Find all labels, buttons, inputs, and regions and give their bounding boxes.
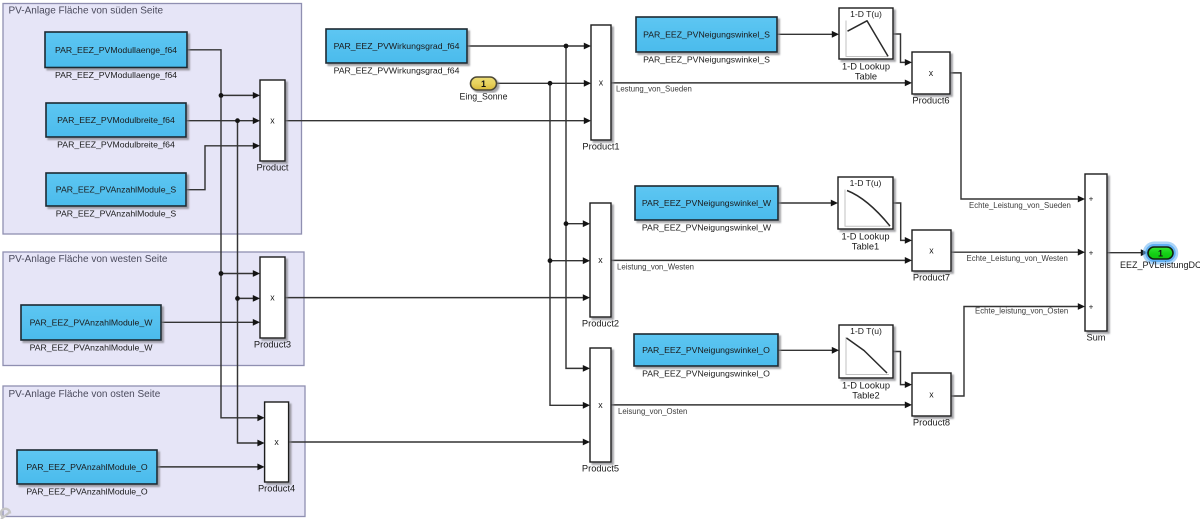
svg-text:x: x [274, 437, 279, 447]
product block Product5 [582, 348, 619, 474]
svg-text:Product7: Product7 [913, 273, 950, 283]
svg-text:x: x [598, 400, 603, 410]
wire: Product2 output (Leistung_von_Westen) to Product7 in2 [611, 257, 912, 264]
svg-text:1-D T(u): 1-D T(u) [850, 178, 882, 188]
svg-text:1-D T(u): 1-D T(u) [850, 9, 882, 19]
svg-text:1-D Lookup: 1-D Lookup [842, 381, 890, 391]
svg-text:PV-Anlage Fläche von westen Se: PV-Anlage Fläche von westen Seite [9, 254, 168, 265]
svg-text:PAR_EEZ_PVModullaenge_f64: PAR_EEZ_PVModullaenge_f64 [55, 70, 177, 80]
junction: Modulbreite branch at Product in2 [235, 118, 240, 123]
constant block PAR_EEZ_PVAnzahlModule_W [21, 305, 161, 353]
constant block PAR_EEZ_PVAnzahlModule_S [46, 173, 186, 219]
svg-text:PAR_EEZ_PVNeigungswinkel_O: PAR_EEZ_PVNeigungswinkel_O [642, 345, 770, 355]
product block Product3 [254, 257, 291, 350]
svg-text:1-D T(u): 1-D T(u) [850, 326, 882, 336]
svg-text:Table1: Table1 [852, 242, 879, 252]
svg-text:PAR_EEZ_PVAnzahlModule_S: PAR_EEZ_PVAnzahlModule_S [56, 185, 177, 195]
svg-text:Leisung_von_Osten: Leisung_von_Osten [618, 407, 687, 416]
svg-text:x: x [929, 68, 934, 78]
svg-text:x: x [929, 390, 934, 400]
wire: Product4 output to Product5 in3 [289, 439, 590, 446]
constant block PAR_EEZ_PVNeigungswinkel_O [634, 334, 778, 379]
input port Eing_Sonne [460, 77, 508, 102]
svg-text:PAR_EEZ_PVModulbreite_f64: PAR_EEZ_PVModulbreite_f64 [57, 140, 175, 150]
product block Product4 [258, 402, 295, 494]
svg-text:PAR_EEZ_PVNeigungswinkel_W: PAR_EEZ_PVNeigungswinkel_W [642, 223, 772, 233]
lookup table 1-D Lookup Table1 (West) [838, 177, 893, 252]
svg-text:Lestung_von_Sueden: Lestung_von_Sueden [616, 85, 692, 94]
svg-text:Table: Table [855, 72, 877, 82]
svg-text:PAR_EEZ_PVNeigungswinkel_S: PAR_EEZ_PVNeigungswinkel_S [643, 30, 770, 40]
wire: Product1 output (Lestung_von_Sueden) to Product6 in2 [611, 80, 912, 87]
svg-text:x: x [598, 255, 603, 265]
svg-text:Product8: Product8 [913, 418, 950, 428]
svg-text:Echte_leistung_von_Osten: Echte_leistung_von_Osten [975, 307, 1068, 316]
constant block PAR_EEZ_PVWirkungsgrad_f64 [326, 29, 467, 76]
svg-text:PAR_EEZ_PVNeigungswinkel_O: PAR_EEZ_PVNeigungswinkel_O [642, 369, 770, 379]
wire: Product7 output (Echte_Leistung_von_Westen) to Sum in2 [951, 249, 1085, 256]
wire: PAR_EEZ_PVAnzahlModule_O to Product4 in3 [157, 464, 265, 471]
wire: 1-D Lookup Table1 output to Product7 in1 [893, 203, 912, 244]
wire: 1-D Lookup Table output to Product6 in1 [893, 34, 912, 66]
constant block PAR_EEZ_PVModullaenge_f64 [45, 32, 187, 80]
svg-text:x: x [270, 116, 275, 126]
wire: Product6 output (Echte_Leistung_von_Sueden) to Sum in1 [950, 73, 1085, 203]
svg-text:PAR_EEZ_PVNeigungswinkel_S: PAR_EEZ_PVNeigungswinkel_S [643, 55, 770, 65]
svg-text:Echte_Leistung_von_Sueden: Echte_Leistung_von_Sueden [969, 201, 1071, 210]
junction: Modullaenge branch to Product [219, 93, 224, 98]
svg-text:PAR_EEZ_PVAnzahlModule_O: PAR_EEZ_PVAnzahlModule_O [26, 487, 148, 497]
lookup table 1-D Lookup Table (Sued) [839, 8, 893, 82]
junction: Wirkungsgrad branch down [564, 44, 569, 49]
constant block PAR_EEZ_PVNeigungswinkel_W [635, 186, 778, 233]
svg-text:Eing_Sonne: Eing_Sonne [460, 92, 508, 102]
product block Product [256, 80, 288, 173]
canvas corner mark [1, 509, 10, 519]
svg-text:PAR_EEZ_PVWirkungsgrad_f64: PAR_EEZ_PVWirkungsgrad_f64 [334, 41, 460, 51]
junction: Eing_Sonne branch down [548, 81, 553, 86]
sum block Sum [1085, 174, 1107, 343]
constant block PAR_EEZ_PVNeigungswinkel_S [636, 17, 777, 65]
svg-text:PAR_EEZ_PVAnzahlModule_W: PAR_EEZ_PVAnzahlModule_W [30, 343, 154, 353]
svg-text:x: x [599, 78, 604, 88]
svg-text:1: 1 [481, 79, 486, 89]
svg-text:Product4: Product4 [258, 484, 295, 494]
junction: Modullaenge branch to Product3 [219, 271, 224, 276]
svg-text:PV-Anlage Fläche von süden Sei: PV-Anlage Fläche von süden Seite [9, 6, 164, 17]
wire: PAR_EEZ_PVAnzahlModule_W to Product3 in3 [161, 319, 260, 326]
lookup table 1-D Lookup Table2 (Ost) [839, 325, 893, 401]
svg-text:1-D Lookup: 1-D Lookup [842, 62, 890, 72]
product block Product6 [912, 52, 950, 106]
svg-text:+: + [1089, 249, 1094, 258]
subsystem area: PV-Anlage Flaeche von sueden Seite [3, 4, 302, 235]
svg-text:Product5: Product5 [582, 464, 619, 474]
svg-text:PAR_EEZ_PVModulbreite_f64: PAR_EEZ_PVModulbreite_f64 [57, 115, 175, 125]
wire: PAR_EEZ_PVNeigungswinkel_S to 1-D Lookup Table [777, 31, 839, 38]
svg-text:+: + [1089, 194, 1094, 203]
svg-text:EEZ_PVLeistungDC: EEZ_PVLeistungDC [1120, 260, 1200, 270]
svg-text:Leistung_von_Westen: Leistung_von_Westen [617, 263, 694, 272]
wire: PAR_EEZ_PVNeigungswinkel_W to 1-D Lookup Table1 [778, 200, 838, 207]
constant block PAR_EEZ_PVModulbreite_f64 [46, 103, 186, 150]
svg-text:Product3: Product3 [254, 340, 291, 350]
wire: Product8 output (Echte_leistung_von_Osten) to Sum in3 [951, 303, 1085, 396]
wire: PAR_EEZ_PVNeigungswinkel_O to 1-D Lookup Table2 [778, 347, 839, 354]
subsystem area: PV-Anlage Flaeche von osten Seite [3, 386, 305, 517]
svg-text:PAR_EEZ_PVAnzahlModule_S: PAR_EEZ_PVAnzahlModule_S [56, 209, 177, 219]
wire: Product5 output (Leisung_von_Osten) to Product8 in2 [611, 402, 912, 409]
wire: PAR_EEZ_PVAnzahlModule_S to Product in3 [187, 142, 261, 189]
wire: Sum output to EEZ_PVLeistungDC port [1107, 249, 1148, 256]
svg-text:Echte_Leistung_von_Westen: Echte_Leistung_von_Westen [967, 254, 1068, 263]
output port EEZ_PVLeistungDC (selected) [1120, 244, 1200, 270]
product block Product2 [582, 203, 619, 329]
wire: Product output to Product1 in3 [285, 117, 591, 124]
constant block PAR_EEZ_PVAnzahlModule_O [17, 450, 157, 497]
svg-text:+: + [1089, 302, 1094, 311]
wire: Eing_Sonne to Product1/Product2/Product5 in2 [497, 80, 592, 409]
junction: Wirkungsgrad branch to Product2 in1 [564, 221, 569, 226]
junction: Modulbreite branch to Product3 in2 [235, 296, 240, 301]
svg-text:Product2: Product2 [582, 319, 619, 329]
wire: 1-D Lookup Table2 output to Product8 in1 [893, 352, 912, 389]
svg-text:PV-Anlage Fläche von osten Sei: PV-Anlage Fläche von osten Seite [9, 389, 161, 400]
svg-text:PAR_EEZ_PVWirkungsgrad_f64: PAR_EEZ_PVWirkungsgrad_f64 [334, 66, 460, 76]
svg-text:Sum: Sum [1086, 333, 1105, 343]
junction: Eing_Sonne branch to Product2 in2 [548, 258, 553, 263]
wire: PAR_EEZ_PVModulbreite_f64 to Product/Product3/Product4 in2 [187, 117, 265, 446]
subsystem area: PV-Anlage Flaeche von westen Seite [3, 252, 304, 366]
svg-text:1-D Lookup: 1-D Lookup [841, 232, 889, 242]
svg-text:Product6: Product6 [912, 96, 949, 106]
svg-text:PAR_EEZ_PVNeigungswinkel_W: PAR_EEZ_PVNeigungswinkel_W [642, 198, 772, 208]
wire: Product3 output to Product2 in3 [285, 294, 590, 301]
svg-text:1: 1 [1158, 248, 1163, 258]
svg-text:Product: Product [256, 163, 288, 173]
svg-text:Product1: Product1 [582, 142, 619, 152]
wire: PAR_EEZ_PVWirkungsgrad_f64 to Product1/Product2/Product5 in1 [467, 43, 591, 372]
svg-text:PAR_EEZ_PVAnzahlModule_O: PAR_EEZ_PVAnzahlModule_O [26, 462, 148, 472]
svg-text:PAR_EEZ_PVAnzahlModule_W: PAR_EEZ_PVAnzahlModule_W [30, 318, 154, 328]
product block Product8 [912, 373, 951, 428]
wire: PAR_EEZ_PVModullaenge_f64 to Product/Product3/Product4 in1 [187, 50, 265, 421]
svg-text:x: x [929, 246, 934, 256]
svg-text:PAR_EEZ_PVModullaenge_f64: PAR_EEZ_PVModullaenge_f64 [55, 45, 177, 55]
svg-text:x: x [270, 293, 275, 303]
product block Product1 [582, 25, 619, 152]
product block Product7 [912, 230, 951, 283]
svg-text:Table2: Table2 [852, 391, 879, 401]
